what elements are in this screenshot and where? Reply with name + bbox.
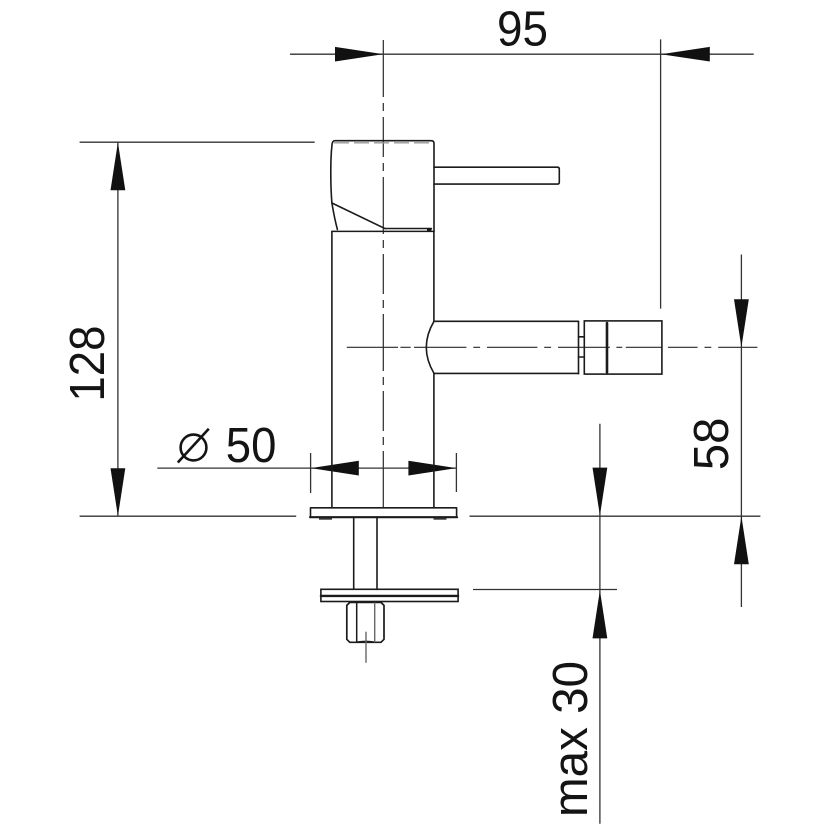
svg-text:128: 128 [60,326,115,402]
svg-text:50: 50 [226,418,277,473]
svg-text:95: 95 [497,2,548,57]
svg-text:max 30: max 30 [543,661,598,817]
svg-text:58: 58 [684,418,739,471]
